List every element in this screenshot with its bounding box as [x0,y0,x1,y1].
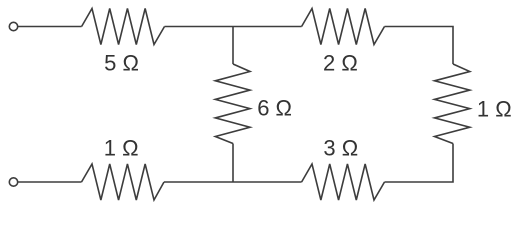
wire middle branch top lead [232,27,234,65]
svg-text:1 Ω: 1 Ω [477,97,512,122]
wire top-left lead [18,26,82,28]
resistor R5 1Ω right [435,64,470,144]
wire top middle [165,26,302,28]
terminal bottom-left [9,178,17,186]
resistor R4 3Ω [302,164,385,200]
wire bottom middle [164,181,302,183]
resistor R6 6Ω middle [215,64,250,144]
wire middle branch bottom lead [232,144,234,183]
svg-text:6 Ω: 6 Ω [257,96,292,121]
resistor R2 2Ω [302,9,385,45]
svg-text:5 Ω: 5 Ω [104,51,139,76]
svg-text:1 Ω: 1 Ω [104,136,139,161]
wire right bottom [385,144,454,183]
resistor R3 1Ω bottom [82,164,165,200]
svg-text:3 Ω: 3 Ω [323,136,358,161]
terminal top-left [9,22,17,30]
svg-text:2 Ω: 2 Ω [323,51,358,76]
resistor R1 5Ω [82,9,165,45]
wire bottom-left lead [18,181,82,183]
wire top right [385,27,454,65]
